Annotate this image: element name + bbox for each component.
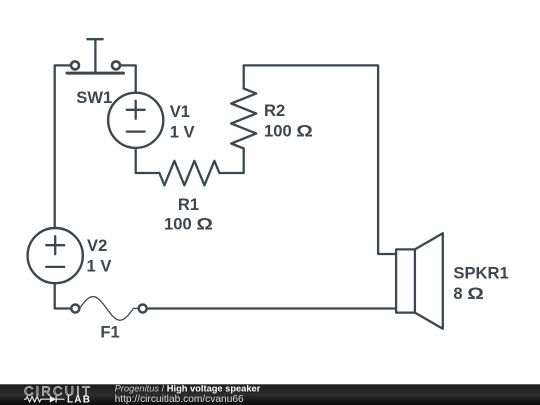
resistor R2 bbox=[231, 89, 256, 149]
V1 minus sign bbox=[127, 130, 145, 132]
svg-text:V1: V1 bbox=[170, 102, 190, 121]
svg-text:R1: R1 bbox=[178, 195, 199, 214]
switch SW1 bar bbox=[67, 72, 124, 75]
wire: R1 right to R2 bottom bbox=[219, 149, 243, 174]
svg-text:1 V: 1 V bbox=[170, 123, 195, 142]
voltage source V1 body bbox=[108, 93, 163, 148]
switch SW1 stem bbox=[94, 39, 96, 71]
svg-text:LAB: LAB bbox=[67, 394, 91, 405]
V2 plus sign bbox=[46, 236, 64, 254]
wire: V1 bottom to R1 left bbox=[136, 148, 160, 173]
V1 plus sign bbox=[127, 101, 145, 119]
svg-text:SPKR1: SPKR1 bbox=[453, 264, 508, 283]
V2 minus sign bbox=[46, 266, 64, 268]
svg-text:8 Ω: 8 Ω bbox=[453, 284, 483, 303]
wire: switch right terminal to V1 top bbox=[121, 65, 135, 92]
speaker SPKR1 horn bbox=[415, 233, 443, 329]
svg-text:V2: V2 bbox=[87, 236, 107, 255]
switch SW1 left terminal bbox=[71, 61, 79, 69]
resistor R1 bbox=[159, 161, 219, 186]
svg-text:Progenitus / High voltage spea: Progenitus / High voltage speaker bbox=[115, 383, 261, 393]
fuse F1 right terminal bbox=[139, 305, 147, 313]
switch SW1 cap bbox=[87, 38, 102, 40]
wire: V2 bottom to fuse left bbox=[55, 283, 70, 308]
svg-text:F1: F1 bbox=[100, 323, 119, 342]
logo diode bbox=[50, 396, 56, 403]
wire: speaker bottom to fuse right bbox=[148, 307, 396, 309]
svg-text:100 Ω: 100 Ω bbox=[164, 215, 213, 234]
svg-text:R2: R2 bbox=[264, 101, 285, 120]
logo resistor zigzag bbox=[24, 397, 50, 402]
speaker SPKR1 body rect bbox=[396, 249, 415, 312]
svg-text:1 V: 1 V bbox=[87, 257, 112, 276]
fuse F1 element bbox=[80, 297, 139, 321]
wire: R2 top to speaker top bbox=[244, 65, 396, 254]
fuse F1 left terminal bbox=[71, 305, 79, 313]
switch SW1 right terminal bbox=[112, 61, 120, 69]
svg-text:100 Ω: 100 Ω bbox=[264, 122, 313, 141]
svg-text:http://circuitlab.com/cvanu66: http://circuitlab.com/cvanu66 bbox=[115, 394, 244, 405]
voltage source V2 body bbox=[28, 228, 83, 283]
svg-text:SW1: SW1 bbox=[76, 88, 112, 107]
wire: switch left terminal to V2 top bbox=[55, 65, 70, 228]
footer bar bbox=[0, 384, 540, 405]
